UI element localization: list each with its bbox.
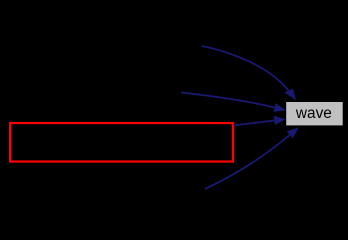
svg-text:wave: wave [295,105,332,122]
